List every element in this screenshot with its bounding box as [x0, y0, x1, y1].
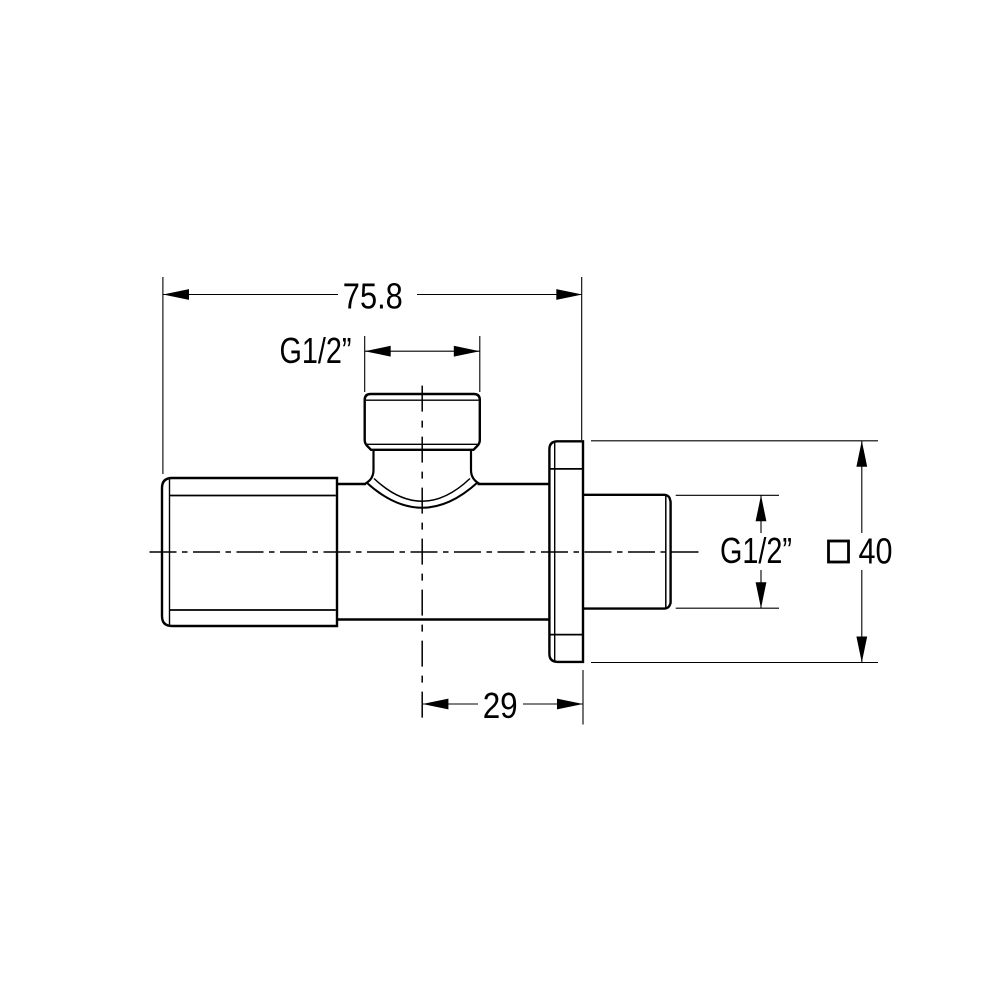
- horizontal centerline: [150, 551, 702, 553]
- handle inner top line: [170, 495, 336, 497]
- dim square40 bottom arrowhead: [856, 637, 867, 663]
- nut bottom chamfer line: [366, 443, 479, 445]
- dim 29 left arrowhead: [422, 699, 448, 710]
- svg-text:G1/2”: G1/2”: [280, 330, 352, 371]
- neck right wall with fillet: [471, 451, 479, 484]
- handle inner bottom line: [170, 609, 336, 611]
- dim 29 line right segment: [523, 703, 583, 705]
- svg-text:29: 29: [483, 685, 518, 726]
- flange outline: [549, 441, 583, 662]
- dim square40 line top segment: [861, 441, 863, 533]
- dim 75.8 left arrowhead: [163, 289, 189, 300]
- dim 75.8 right extension line: [581, 277, 583, 440]
- dim 29 right extension line: [582, 670, 584, 725]
- flange inner top line: [550, 468, 582, 470]
- dim G1/2 top right arrowhead: [454, 346, 480, 357]
- dim square40 top arrowhead: [856, 441, 867, 467]
- dim 29 right arrowhead: [557, 699, 583, 710]
- dim square40 bottom extension line: [591, 662, 878, 664]
- dim square40 top extension line: [591, 440, 878, 442]
- body top line left segment: [338, 483, 366, 485]
- dim 29 line left segment: [422, 703, 478, 705]
- dim G1/2 top line: [365, 350, 480, 352]
- outlet pipe outline: [584, 495, 671, 609]
- vertical centerline: [421, 386, 423, 723]
- flange inner bottom line: [550, 634, 582, 636]
- valve seat inner arc: [374, 479, 470, 502]
- dim G1/2 right bottom arrowhead: [756, 582, 767, 608]
- handle block outline: [162, 478, 337, 626]
- dim square40 line bottom segment: [861, 570, 863, 663]
- neck left wall with fillet: [366, 451, 374, 484]
- dim G1/2 top left arrowhead: [365, 346, 391, 357]
- dim G1/2 right top arrowhead: [756, 495, 767, 521]
- body bottom line: [338, 618, 549, 620]
- dim 75.8 left extension line: [162, 277, 164, 474]
- outlet chamfer line: [665, 496, 667, 609]
- dim G1/2 right bottom extension line: [676, 607, 779, 609]
- svg-text:40: 40: [859, 531, 893, 572]
- valve seat outer arc: [367, 483, 478, 508]
- dim G1/2 top right extension line: [479, 336, 481, 392]
- flange front silhouette line: [554, 443, 556, 661]
- nut top chamfer line: [366, 399, 479, 401]
- dim G1/2 right top extension line: [676, 494, 779, 496]
- top nut outline: [365, 394, 480, 450]
- dim G1/2 top left extension line: [364, 336, 366, 392]
- svg-text:75.8: 75.8: [343, 276, 403, 317]
- dim G1/2 right line bottom segment: [760, 570, 762, 608]
- dim 75.8 right arrowhead: [556, 289, 582, 300]
- dim 75.8 line left segment: [163, 294, 338, 296]
- svg-text:G1/2”: G1/2”: [720, 530, 792, 571]
- body top line right segment: [478, 483, 550, 485]
- handle inner vertical line: [169, 479, 171, 625]
- dim G1/2 right line top segment: [760, 495, 762, 533]
- dim 75.8 line right segment: [417, 294, 582, 296]
- dim square40 square symbol: [829, 541, 849, 562]
